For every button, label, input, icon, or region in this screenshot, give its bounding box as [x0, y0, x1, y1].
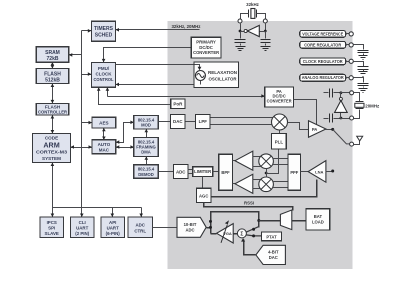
wire FLASH-FLASH CONTROLLER (bidir) — [52, 84, 54, 104]
node sigma-mux — [252, 228, 255, 231]
capacitor C3 (core reg) — [354, 45, 364, 50]
svg-text:BPF: BPF — [221, 170, 230, 175]
wire bus to TIMERS — [82, 30, 92, 32]
capacitor C4 (clock reg) — [354, 62, 364, 67]
wire FRAMING to MOD (up arrow) — [146, 130, 148, 138]
wire mixer Q to PPF (diff) — [273, 182, 289, 188]
wire PoR to PMU bottom — [99, 88, 171, 105]
wire ADC CTRL to 10-BIT ADC — [153, 227, 178, 229]
wire MOD to DAC — [159, 121, 171, 123]
node XTAL20B — [340, 117, 343, 120]
wire PLL to RX mixers LO — [268, 150, 279, 174]
wire bus to IPCS — [52, 208, 54, 218]
svg-text:DAC: DAC — [269, 255, 278, 260]
amplifier PA — [309, 121, 326, 138]
wire SRAM-FLASH (bidir) — [52, 63, 54, 69]
svg-text:MAC: MAC — [99, 147, 110, 152]
wire amp I to mixer I (diff) — [253, 157, 261, 167]
block CLI UART (2 PIN) — [71, 217, 95, 238]
wire mux to node — [259, 220, 281, 222]
svg-text:SLAVE: SLAVE — [45, 231, 59, 236]
wire node to pin XTAL20B — [341, 118, 350, 120]
svg-text:API: API — [109, 220, 116, 225]
block FLASH CONTROLLER — [36, 103, 69, 115]
node TX — [331, 128, 334, 131]
pin VREG_ANA — [349, 76, 353, 80]
pin XTAL32B — [263, 19, 267, 23]
wire crystal left leg — [241, 14, 249, 20]
svg-text:SYSTEM: SYSTEM — [42, 156, 61, 161]
block AUTO MAC — [92, 140, 116, 154]
wire pin RF to antenna — [354, 141, 360, 145]
20MHz osc: bottom cap C7 — [324, 118, 329, 120]
wire pin to node 32B — [265, 24, 267, 32]
wire PPF to LNA — [301, 171, 309, 173]
svg-text:CONVERTER: CONVERTER — [267, 99, 292, 104]
block ARM CORTEX-M3 CPU — [33, 134, 71, 163]
svg-text:DAC: DAC — [173, 119, 183, 124]
capacitor C5 (analog reg) — [354, 78, 364, 83]
wire bus to SRAM — [69, 54, 82, 56]
svg-text:CONTROLLER: CONTROLLER — [38, 110, 68, 115]
wire LO split to mixers — [266, 169, 268, 178]
svg-text:PPF: PPF — [290, 170, 298, 175]
svg-text:802.15.4: 802.15.4 — [138, 167, 155, 172]
wire LPF to TX mixer (diff pair) — [211, 118, 274, 125]
svg-text:512kB: 512kB — [45, 77, 60, 83]
wire bus to AES — [82, 122, 93, 124]
inverter U1 (32kHz osc) — [241, 31, 266, 33]
VGA bypass loop — [211, 212, 259, 234]
pin RF — [350, 142, 354, 146]
svg-text:PA: PA — [312, 127, 318, 132]
node sigma-PTAT — [252, 234, 255, 237]
svg-text:AES: AES — [99, 121, 108, 126]
wire node to VGA input — [211, 233, 217, 235]
VGA gain arrow — [221, 225, 227, 243]
svg-text:CTRL: CTRL — [134, 229, 146, 234]
block ADC CTRL — [128, 217, 153, 238]
wire AGC to LNA gain — [212, 180, 317, 197]
svg-text:MOD: MOD — [141, 123, 151, 128]
svg-text:DMA: DMA — [141, 150, 151, 155]
ground (C1) — [236, 47, 246, 51]
wire TX mixer to PA — [288, 123, 309, 130]
wire LNA to node RX — [326, 171, 333, 173]
wire PA DC/DC to PA supply — [294, 100, 317, 125]
wire PMU to RELAXATION OSC (out) — [116, 64, 195, 66]
node ADCIN upper — [209, 220, 212, 223]
svg-text:32kHz: 32kHz — [246, 2, 259, 7]
wire LIMITER to BPF — [213, 171, 219, 173]
wire RELAXATION OSC to PMU (in) — [116, 84, 197, 86]
svg-text:SRAM: SRAM — [45, 50, 60, 56]
svg-text:UART: UART — [107, 226, 120, 231]
svg-text:PoR: PoR — [173, 102, 183, 107]
svg-text:RSSI: RSSI — [244, 200, 254, 205]
wire PA output to node TX — [326, 129, 333, 131]
svg-text:Σ: Σ — [240, 231, 243, 237]
wire crystal right leg — [257, 14, 266, 20]
node XTAL20A — [340, 91, 343, 94]
wire PRIMARY DC/DC to PMU top — [104, 48, 192, 63]
wire 4-BIT DAC to sigma — [244, 240, 256, 255]
svg-text:CONVERTER: CONVERTER — [193, 50, 220, 55]
block BPF — [219, 154, 233, 190]
svg-text:AUTO: AUTO — [98, 142, 111, 147]
wire PMU clock request into oscillator — [195, 65, 200, 69]
wire ARM-AUTO MAC (bidir) — [71, 147, 93, 149]
node LO — [265, 172, 268, 175]
pin VREG_CLK — [349, 59, 353, 63]
wire AUTO MAC to 802.15.4 MOD (bidir L) — [116, 123, 134, 143]
svg-text:10-BIT: 10-BIT — [184, 222, 197, 227]
block ANALOG REGULATOR — [300, 74, 346, 81]
wire node to pin XTAL20A — [341, 92, 350, 94]
wire ADC-LIMITER (diff pair) — [188, 170, 193, 174]
svg-text:LNA: LNA — [315, 169, 323, 174]
svg-text:BAT: BAT — [314, 214, 323, 219]
wire ADC tip to node ADCIN — [207, 227, 211, 229]
block BAT LOAD — [306, 209, 330, 230]
wire AES-AUTO MAC (bidir) — [103, 129, 105, 140]
svg-text:VOLTAGE REFERENCE: VOLTAGE REFERENCE — [302, 31, 343, 36]
wire VREF to pin — [346, 33, 350, 35]
block RELAXATION OSCILLATOR — [194, 62, 239, 88]
wire VGA to sigma — [234, 233, 238, 235]
wire CORE REG to pin — [346, 44, 350, 46]
pin XTAL32A — [238, 19, 242, 23]
svg-text:20MHz: 20MHz — [365, 104, 380, 109]
svg-text:IPCS: IPCS — [47, 220, 57, 225]
wire bus to CLI UART — [81, 208, 83, 218]
radio / analog shaded region — [168, 21, 353, 269]
block PTAT — [262, 232, 282, 241]
amplifier VGA — [217, 224, 234, 243]
svg-text:SPI: SPI — [48, 226, 55, 231]
node 32B — [264, 30, 267, 33]
svg-text:DEMOD: DEMOD — [138, 172, 154, 177]
svg-text:(2 PIN): (2 PIN) — [75, 231, 89, 236]
wire antenna switch (TX throw) — [333, 129, 350, 144]
wire BPF to RX amp I — [233, 160, 236, 162]
svg-text:ADC: ADC — [176, 169, 186, 174]
block 10-BIT ADC (flag) — [177, 217, 206, 237]
node ADCIN lower — [209, 226, 212, 229]
capacitor C2 — [265, 32, 267, 39]
block PoR — [171, 99, 185, 109]
inverter U2 (20MHz osc) — [340, 93, 342, 119]
summer sigma — [237, 229, 246, 238]
svg-text:ADC: ADC — [135, 223, 145, 228]
block AES — [92, 117, 116, 128]
svg-text:LIMITER: LIMITER — [194, 169, 211, 174]
block PPF — [288, 154, 301, 190]
block LIMITER — [193, 167, 213, 177]
svg-text:CORE REGULATOR: CORE REGULATOR — [304, 42, 341, 47]
TX mixer M1 — [272, 114, 288, 130]
block PMU / CLOCK CONTROL — [92, 62, 116, 87]
svg-text:ANALOG REGULATOR: ANALOG REGULATOR — [302, 75, 344, 80]
node RX — [331, 170, 334, 173]
pin VREG_CORE — [349, 43, 353, 47]
pin XTAL20B — [350, 116, 354, 120]
svg-text:CLOCK REGULATOR: CLOCK REGULATOR — [303, 59, 343, 64]
block 4-BIT DAC (flag) — [256, 245, 286, 264]
node mux out — [257, 219, 260, 222]
wire bus to API UART — [112, 208, 114, 218]
oscillator symbol — [195, 71, 205, 81]
svg-text:SCHED: SCHED — [95, 33, 113, 39]
capacitor C1 — [240, 32, 242, 39]
pin VREF — [349, 32, 353, 36]
svg-text:PMU/: PMU/ — [98, 66, 110, 71]
antenna — [357, 136, 363, 141]
RX mixer I — [259, 154, 274, 169]
block ADC (RX) — [174, 165, 188, 179]
block 802.15.4 FRAMING DMA — [134, 138, 158, 157]
pin XTAL20A — [350, 91, 354, 95]
svg-text:32kHz, 20MHz: 32kHz, 20MHz — [171, 24, 201, 29]
svg-text:UART: UART — [76, 226, 89, 231]
wire PLL to TX mixer — [279, 131, 281, 134]
wire PTAT to sigma — [246, 235, 261, 236]
wire amp Q to mixer Q (diff) — [253, 180, 261, 189]
peripheral bus horizontal — [53, 207, 142, 209]
ground (C2) — [261, 47, 271, 51]
amplifier RX Q — [235, 174, 253, 193]
ground (C3) — [359, 56, 368, 60]
svg-text:4-BIT: 4-BIT — [268, 250, 279, 255]
block 802.15.4 MOD — [134, 116, 158, 130]
ground (C4) — [359, 72, 368, 77]
wire 32kHz/20MHz clocks to TIMERS — [116, 29, 200, 31]
wire mixer I to PPF (diff) — [273, 159, 289, 165]
wire ARM bottom to peripheral bus — [52, 163, 54, 208]
block DAC (TX) — [171, 115, 186, 129]
block 802.15.4 DEMOD — [134, 165, 158, 178]
mux (analog input select) — [280, 210, 291, 230]
svg-text:CLI: CLI — [79, 220, 86, 225]
svg-text:AGC: AGC — [199, 193, 208, 198]
block API UART (6-PIN) — [101, 217, 125, 238]
block VOLTAGE REFERENCE — [300, 31, 346, 38]
ground (C5) — [359, 89, 368, 93]
svg-text:LPF: LPF — [199, 119, 208, 124]
block CORE REGULATOR — [300, 41, 346, 48]
wire pin to node 32A — [240, 24, 242, 32]
svg-text:OSCILLATOR: OSCILLATOR — [209, 76, 238, 81]
svg-text:FLASH: FLASH — [44, 71, 61, 77]
wire LIMITER to AGC — [202, 177, 204, 189]
wire RSSI — [204, 203, 293, 211]
block PA DC/DC CONVERTER — [265, 87, 294, 107]
block PLL — [272, 134, 287, 150]
svg-text:CONTROL: CONTROL — [94, 77, 114, 82]
svg-text:ARM: ARM — [43, 141, 59, 150]
block CLOCK REGULATOR — [300, 58, 346, 65]
wire PMU to PA DC/DC — [108, 88, 265, 97]
wire ANALOG REG to pin — [346, 77, 350, 79]
wire CLOCK REG to pin — [346, 61, 350, 63]
wire DAC to LPF — [186, 121, 196, 123]
svg-text:802.15.4: 802.15.4 — [138, 117, 155, 122]
wire BAT LOAD to mux — [292, 220, 307, 222]
crystal X2 20MHz — [354, 93, 360, 102]
20MHz osc: top cap C6 — [324, 92, 329, 94]
wire bus to PMU — [82, 74, 92, 76]
block AGC — [196, 188, 211, 202]
wire AUTO MAC to FRAMING DMA (bidir) — [116, 147, 134, 149]
wire mux branch to sigma — [246, 227, 259, 233]
wire BPF to RX amp Q — [233, 183, 236, 185]
svg-text:CORTEX-M3: CORTEX-M3 — [36, 150, 67, 155]
svg-text:RELAXATION: RELAXATION — [208, 70, 237, 75]
wire FLASH CONTROLLER-ARM (bidir) — [52, 116, 54, 134]
svg-text:CLOCK: CLOCK — [96, 72, 113, 77]
svg-text:TIMERS: TIMERS — [94, 26, 114, 32]
node 32A — [239, 30, 242, 33]
block IPCS SPI SLAVE — [40, 217, 64, 238]
svg-text:ADC: ADC — [185, 227, 194, 232]
block TIMERS SCHED — [92, 21, 116, 41]
svg-text:72kB: 72kB — [47, 56, 59, 62]
svg-text:PLL: PLL — [275, 139, 284, 144]
amplifier LNA — [308, 161, 326, 183]
svg-text:PTAT: PTAT — [266, 234, 277, 239]
wire DEMOD to FRAMING (up arrow) — [146, 157, 148, 165]
block LPF — [196, 115, 211, 129]
svg-text:(6-PIN): (6-PIN) — [106, 231, 121, 236]
svg-text:LOAD: LOAD — [312, 220, 324, 225]
block FLASH 512kB — [36, 69, 69, 84]
RX mixer Q — [259, 177, 274, 192]
wire bus to ADC CTRL — [141, 208, 143, 218]
amplifier RX I — [235, 151, 253, 170]
block PRIMARY DC/DC CONVERTER — [191, 37, 221, 58]
system bus vertical — [81, 31, 83, 208]
block SRAM 72kB — [36, 47, 69, 62]
crystal X1 32kHz — [251, 9, 255, 19]
wire DEMOD to RX ADC — [159, 171, 174, 173]
